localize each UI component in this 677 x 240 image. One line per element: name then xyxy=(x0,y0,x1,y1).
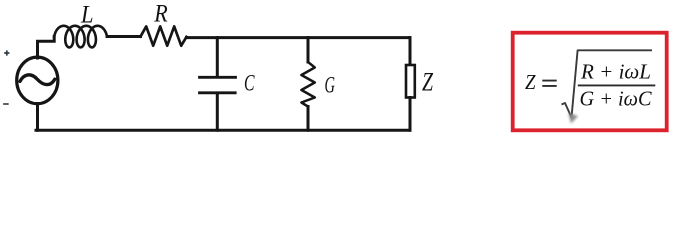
svg-text:L: L xyxy=(80,1,93,28)
wire Z branch top xyxy=(409,38,412,65)
wire G branch top xyxy=(307,38,310,62)
svg-text:R: R xyxy=(153,1,167,28)
red formula box xyxy=(513,33,667,131)
impedance Z box xyxy=(406,65,415,98)
radical sign xyxy=(562,50,653,117)
minus terminal label xyxy=(3,103,9,105)
capacitor C top plate xyxy=(200,76,236,79)
radical arrowhead artifact xyxy=(569,113,579,124)
wire inductor to resistor xyxy=(107,35,141,38)
wire source bottom xyxy=(36,104,39,131)
wire Z branch bottom xyxy=(409,98,412,131)
svg-text:G + iωC: G + iωC xyxy=(580,86,653,110)
node: C branch top wire xyxy=(216,38,219,76)
wire source top to inductor xyxy=(38,37,55,59)
svg-text:C: C xyxy=(244,71,255,96)
fraction bar xyxy=(578,84,656,86)
sine wave inside source xyxy=(20,75,55,85)
resistor G (conductance) xyxy=(301,62,314,107)
wire capacitor to bottom rail xyxy=(216,94,219,130)
wire resistor to top-right corner xyxy=(187,36,411,39)
inductor L xyxy=(54,26,107,48)
svg-text:Z: Z xyxy=(525,70,536,94)
svg-text:G: G xyxy=(325,73,336,98)
svg-text:R + iωL: R + iωL xyxy=(580,59,651,83)
plus terminal label xyxy=(4,50,9,55)
capacitor C bottom plate xyxy=(200,91,236,94)
AC source V1 xyxy=(17,57,58,104)
bottom rail wire xyxy=(36,129,410,132)
resistor R xyxy=(141,26,187,45)
svg-text:Z: Z xyxy=(422,68,433,97)
wire G branch bottom xyxy=(307,107,310,131)
